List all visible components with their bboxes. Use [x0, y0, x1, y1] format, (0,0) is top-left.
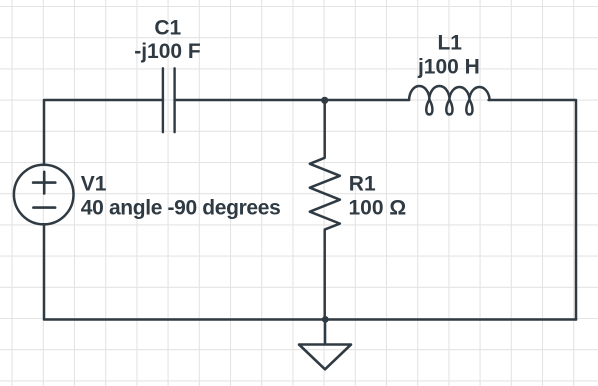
svg-text:V1: V1: [81, 172, 107, 195]
svg-text:j100 H: j100 H: [417, 56, 480, 79]
ground: [299, 320, 351, 370]
wire V1 plus to C1 left plate: [44, 100, 163, 164]
wire bottom right corner to node B: [325, 318, 576, 321]
V1 plus sign: [33, 172, 55, 194]
svg-text:40 angle -90 degrees: 40 angle -90 degrees: [81, 196, 281, 219]
resistor R1: [310, 100, 340, 320]
svg-text:-j100 F: -j100 F: [134, 40, 201, 63]
label R1 name: [349, 172, 376, 195]
label L1 name: [437, 32, 462, 55]
voltage source V1: [14, 165, 74, 225]
wire L1 to right corner down to bottom: [489, 100, 576, 320]
label V1 value 40 angle -90 degrees: [81, 196, 281, 219]
label C1 name: [154, 16, 181, 39]
svg-text:100 Ω: 100 Ω: [349, 197, 407, 220]
wire C1 right plate to node A: [175, 99, 325, 102]
V1 minus sign: [33, 206, 55, 209]
svg-text:R1: R1: [349, 172, 376, 195]
wire node A to L1: [325, 99, 409, 102]
label V1 name: [81, 172, 107, 195]
label R1 value 100 ohm: [349, 197, 407, 220]
svg-text:L1: L1: [437, 32, 462, 55]
inductor L1: [409, 86, 490, 114]
capacitor C1: [163, 68, 175, 132]
wire node B to bottom left corner up to V1 minus: [44, 225, 325, 319]
label C1 value -j100 F: [134, 40, 201, 63]
svg-text:C1: C1: [154, 16, 181, 39]
node A junction dot: [321, 97, 328, 104]
label L1 value j100 H: [417, 56, 480, 79]
node B junction dot: [322, 316, 329, 323]
